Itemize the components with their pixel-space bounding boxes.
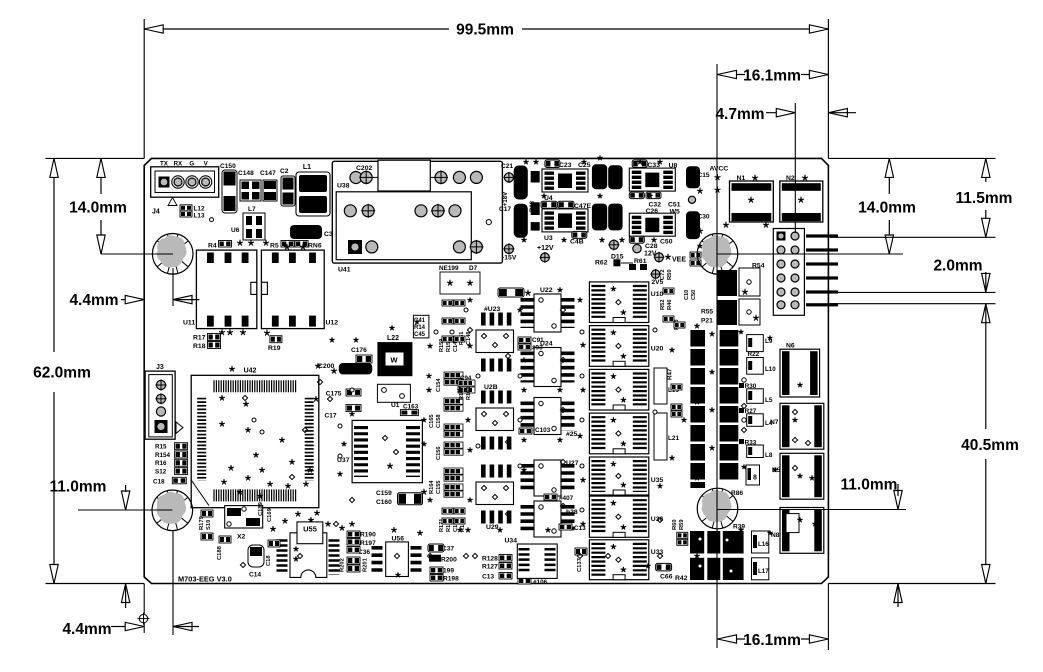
module holes middle row — [344, 205, 356, 217]
stars on dominoes — [709, 331, 714, 336]
pin row line y=237 — [830, 236, 996, 238]
svg-text:11.0mm: 11.0mm — [841, 477, 898, 494]
svg-text:C45: C45 — [414, 332, 426, 338]
svg-text:C150: C150 — [220, 163, 236, 170]
svg-text:TX: TX — [160, 160, 169, 167]
svg-text:U38: U38 — [337, 183, 350, 190]
svg-text:U35: U35 — [651, 477, 664, 484]
svg-text:R59: R59 — [679, 519, 685, 530]
dominoes below hole — [690, 531, 704, 554]
svg-text:R164: R164 — [429, 480, 435, 494]
svg-text:#25: #25 — [566, 431, 578, 438]
svg-text:L1: L1 — [303, 164, 311, 171]
svg-text:VEE: VEE — [672, 257, 686, 264]
svg-text:U22: U22 — [540, 287, 553, 294]
svg-text:R14: R14 — [414, 325, 426, 331]
svg-text:R5: R5 — [270, 243, 279, 250]
svg-text:R61: R61 — [634, 258, 647, 265]
svg-text:U41: U41 — [338, 267, 351, 274]
svg-text:R60: R60 — [672, 519, 678, 530]
svg-text:16.1mm: 16.1mm — [743, 632, 801, 649]
svg-text:4.7mm: 4.7mm — [715, 106, 764, 123]
svg-text:J3: J3 — [156, 364, 164, 371]
svg-text:C160: C160 — [376, 499, 392, 506]
resistor block R161 R167 — [458, 380, 475, 386]
svg-text:U3: U3 — [544, 235, 553, 242]
module holes top right — [435, 171, 447, 183]
svg-text:R190: R190 — [360, 532, 376, 539]
stars in N connectors — [797, 382, 802, 387]
svg-text:4.4mm: 4.4mm — [62, 621, 111, 638]
svg-text:P21: P21 — [701, 318, 713, 325]
IC U36 — [589, 496, 648, 537]
svg-text:R19: R19 — [268, 345, 281, 352]
op-amp U22 — [534, 294, 561, 332]
shield U11 — [196, 250, 256, 329]
svg-text:11.0mm: 11.0mm — [50, 479, 107, 496]
choke L4 — [747, 414, 764, 427]
board top edge extension right — [828, 157, 995, 159]
capacitor C28 — [629, 236, 644, 243]
choke L17 — [752, 558, 769, 580]
svg-text:C189: C189 — [258, 501, 264, 516]
svg-text:R4: R4 — [208, 243, 217, 250]
svg-text:C176: C176 — [351, 347, 367, 354]
label 2V5 — [651, 270, 659, 278]
choke box 8 — [746, 465, 760, 485]
svg-text:RX: RX — [174, 160, 183, 167]
svg-text:C28: C28 — [645, 243, 658, 250]
svg-text:2.0mm: 2.0mm — [933, 258, 982, 275]
module pad bottom-left — [348, 240, 362, 254]
svg-text:X2: X2 — [237, 534, 246, 541]
svg-text:C148: C148 — [466, 332, 472, 345]
IC U21 — [589, 413, 648, 454]
svg-text:C154: C154 — [436, 378, 442, 392]
svg-text:R22: R22 — [748, 351, 760, 358]
IC U1 — [377, 384, 410, 402]
svg-text:R179: R179 — [199, 515, 205, 530]
svg-text:C66: C66 — [660, 574, 673, 581]
svg-text:R15: R15 — [155, 444, 167, 451]
svg-text:U6: U6 — [231, 227, 240, 234]
svg-text:w: w — [389, 355, 398, 365]
extension line left top — [143, 19, 145, 158]
pin row line y=304 — [830, 303, 996, 305]
dimension 14.0mm right — [888, 158, 890, 194]
svg-text:R55: R55 — [701, 309, 713, 316]
dimension 99.5mm top — [144, 28, 449, 30]
svg-text:C147: C147 — [260, 170, 276, 177]
power module U41 — [332, 161, 502, 263]
svg-text:4.4mm: 4.4mm — [69, 292, 118, 309]
filter capacitor dominoes column — [690, 330, 705, 347]
capacitor C66 — [656, 563, 672, 571]
shield U12 — [261, 250, 324, 329]
svg-text:R201: R201 — [363, 557, 369, 572]
scattered diamonds — [467, 327, 472, 332]
label 12V — [633, 244, 641, 252]
svg-text:N6: N6 — [786, 343, 795, 350]
hole centerline right y=510 — [717, 509, 906, 511]
svg-text:11.5mm: 11.5mm — [956, 190, 1013, 207]
svg-text:R128: R128 — [482, 556, 498, 563]
svg-text:14.0mm: 14.0mm — [858, 200, 916, 217]
IC U4 — [542, 169, 588, 192]
dimension 11.5mm right — [985, 158, 987, 182]
svg-text:R127: R127 — [482, 564, 498, 571]
resistor R19 — [270, 336, 282, 343]
svg-text:C202: C202 — [356, 165, 372, 172]
svg-text:R16: R16 — [155, 460, 167, 467]
optocoupler U26 — [481, 391, 512, 404]
board bottom edge extension right — [828, 583, 995, 585]
choke L6 — [747, 445, 764, 458]
IC U3 — [542, 209, 588, 232]
IC U37 — [352, 420, 422, 482]
svg-text:C3: C3 — [324, 231, 333, 238]
svg-text:8: 8 — [753, 475, 757, 482]
narrow box U19 — [654, 368, 667, 404]
svg-text:U27: U27 — [566, 460, 579, 467]
module hole U38 — [350, 172, 362, 184]
svg-text:C103: C103 — [535, 427, 551, 434]
PCB board outline M703-EEG — [144, 158, 828, 583]
svg-text:C17: C17 — [499, 206, 511, 213]
label VEE — [655, 253, 664, 262]
svg-text:R47: R47 — [666, 368, 673, 380]
svg-text:C137: C137 — [577, 558, 583, 572]
capacitor C32 C51 — [629, 192, 644, 199]
svg-text:#U23: #U23 — [484, 306, 500, 313]
svg-text:L5: L5 — [765, 397, 773, 404]
IC U49 — [589, 369, 648, 410]
capacitor bank C35 C30 — [686, 166, 700, 188]
svg-text:S12: S12 — [155, 468, 167, 475]
svg-text:C23: C23 — [559, 162, 572, 169]
svg-text:b28: b28 — [566, 509, 578, 516]
dimension 16.1mm bottom — [718, 638, 746, 640]
svg-text:199: 199 — [443, 568, 454, 575]
svg-text:N5: N5 — [772, 467, 781, 474]
IC U20 — [589, 326, 648, 367]
dimension 62.0mm left — [53, 158, 55, 352]
svg-text:L7: L7 — [248, 206, 256, 213]
stars inside U42 — [229, 366, 235, 371]
svg-text:RN6: RN6 — [308, 243, 322, 250]
capacitor C106 small parts — [690, 252, 701, 258]
svg-text:U12: U12 — [326, 320, 339, 327]
svg-text:C188: C188 — [217, 545, 223, 560]
choke L9 — [747, 335, 764, 352]
header pins to board edge — [806, 234, 838, 237]
capacitor C23 — [545, 160, 560, 168]
svg-text:R200: R200 — [441, 557, 457, 564]
connector J4 — [151, 167, 219, 197]
connector N5 — [780, 453, 824, 499]
stars below U42 — [295, 511, 301, 516]
scattered small circles — [434, 330, 438, 334]
capacitor C3 — [290, 225, 322, 239]
svg-text:C165: C165 — [429, 414, 435, 428]
dimension 14.0mm left — [100, 158, 102, 194]
board bottom edge extension left — [46, 583, 145, 585]
capacitor C14 — [248, 545, 264, 567]
svg-text:L13: L13 — [194, 213, 205, 220]
mounting hole top-left — [152, 234, 193, 275]
hole centerline left y=510 — [78, 509, 172, 511]
optocoupler U23 — [481, 313, 512, 326]
capacitor C46 C47 — [541, 201, 557, 208]
mounting hole bottom-left — [152, 490, 193, 531]
capacitor column C154 C158 C165 C156 C155 — [444, 372, 463, 378]
svg-text:C200: C200 — [318, 363, 334, 370]
inductor L12 L13 — [180, 205, 192, 211]
choke L10 — [747, 358, 764, 375]
svg-text:C50: C50 — [660, 239, 673, 246]
hole centerline left y=254 — [101, 253, 173, 255]
resistor R58 R57 — [677, 532, 688, 538]
svg-text:C2: C2 — [280, 168, 289, 175]
svg-text:R18: R18 — [193, 343, 206, 350]
svg-text:R62: R62 — [595, 260, 608, 267]
svg-text:C159: C159 — [376, 490, 392, 497]
svg-text:N8: N8 — [771, 532, 780, 539]
svg-text:C4B: C4B — [570, 239, 584, 246]
module hole C202 — [360, 171, 372, 183]
extension line right top — [827, 19, 829, 158]
svg-text:U10: U10 — [651, 291, 664, 298]
svg-text:R17: R17 — [193, 335, 206, 342]
svg-text:C156: C156 — [436, 446, 442, 460]
capacitor C48 — [572, 231, 587, 238]
svg-text:L17: L17 — [758, 568, 769, 575]
svg-text:R50: R50 — [667, 269, 673, 280]
svg-text:R18: R18 — [530, 200, 536, 212]
hole center stub bottom x=173 — [172, 531, 174, 635]
scattered component markers — [414, 319, 419, 324]
svg-text:R197: R197 — [360, 540, 376, 547]
svg-text:J4: J4 — [152, 209, 160, 216]
capacitor C41 R14 C45 block — [413, 315, 429, 338]
dimension 16.1mm top — [718, 74, 746, 76]
connector U55 — [290, 533, 327, 578]
IC U10 — [589, 282, 648, 323]
svg-text:U11: U11 — [183, 320, 195, 327]
pin row line y=292 — [830, 291, 996, 293]
svg-text:C51: C51 — [668, 202, 681, 209]
small parts left of channel array — [442, 300, 453, 306]
module holes bottom row — [366, 241, 378, 253]
svg-text:C94: C94 — [460, 375, 472, 382]
svg-text:R154: R154 — [155, 452, 171, 459]
svg-text:N7: N7 — [770, 419, 779, 426]
hole center stub x=173 — [172, 268, 174, 306]
capacitor C33 — [632, 160, 647, 168]
op-amp U28 — [534, 501, 561, 537]
extension line right bottom x=828 — [827, 584, 829, 651]
QFP pin1 diagonal — [191, 480, 209, 506]
narrow box U21b — [654, 413, 667, 460]
svg-text:C169: C169 — [267, 507, 273, 522]
svg-text:C10: C10 — [684, 290, 690, 300]
svg-text:R161: R161 — [466, 387, 472, 400]
svg-text:U8: U8 — [669, 163, 678, 170]
svg-text:#407: #407 — [559, 495, 574, 502]
extension line hole x=717 — [716, 64, 718, 648]
extension line header x=794 — [794, 103, 796, 233]
IC U5 — [629, 213, 675, 236]
svg-text:U1: U1 — [391, 402, 400, 409]
svg-text:C33: C33 — [648, 162, 661, 169]
svg-text:NE199: NE199 — [439, 265, 459, 272]
svg-text:C155: C155 — [436, 480, 442, 494]
hole centerline right y=254 — [718, 253, 904, 255]
svg-text:C15: C15 — [698, 172, 710, 179]
IC U35 — [589, 457, 648, 495]
svg-text:G: G — [189, 160, 194, 167]
svg-text:U55: U55 — [303, 525, 317, 534]
svg-text:U34: U34 — [505, 538, 518, 545]
svg-text:L12: L12 — [194, 206, 205, 213]
choke L5 — [747, 389, 764, 404]
svg-text:L10: L10 — [765, 366, 776, 373]
svg-text:R52: R52 — [660, 299, 666, 310]
svg-text:C21: C21 — [501, 163, 513, 170]
stars near chokes — [739, 329, 744, 334]
svg-text:C72: C72 — [660, 269, 666, 280]
svg-text:62.0mm: 62.0mm — [33, 365, 91, 382]
svg-text:+18V: +18V — [502, 191, 509, 206]
svg-text:C14: C14 — [249, 572, 261, 579]
svg-text:14.0mm: 14.0mm — [69, 200, 127, 217]
dimension 40.5mm right — [985, 304, 987, 429]
svg-text:L16: L16 — [758, 541, 769, 548]
svg-text:C158: C158 — [436, 414, 442, 428]
connector N7 — [780, 403, 824, 449]
svg-text:C17: C17 — [325, 413, 337, 420]
svg-text:S10: S10 — [206, 520, 212, 530]
svg-text:C175: C175 — [326, 390, 342, 397]
svg-text:R46: R46 — [667, 299, 673, 310]
optocoupler U29 — [481, 465, 512, 478]
pin header P5 2x6 — [773, 229, 804, 316]
IC U8 — [629, 168, 675, 191]
svg-text:L22: L22 — [387, 335, 399, 342]
extension line left bottom x=144 — [143, 584, 145, 634]
svg-text:R202: R202 — [340, 558, 346, 572]
svg-text:40.5mm: 40.5mm — [961, 437, 1019, 454]
svg-text:R198: R198 — [443, 576, 459, 583]
svg-text:C18: C18 — [153, 479, 165, 486]
capacitor bank C24 — [592, 164, 607, 189]
svg-text:L8: L8 — [765, 452, 773, 459]
svg-text:L21: L21 — [668, 435, 679, 442]
svg-text:99.5mm: 99.5mm — [456, 22, 514, 39]
svg-text:C50: C50 — [691, 290, 697, 300]
svg-text:C148: C148 — [238, 170, 254, 177]
resistor R49 R56 — [671, 404, 682, 410]
svg-text:C91: C91 — [532, 337, 544, 344]
svg-text:C30: C30 — [698, 214, 710, 221]
svg-text:#93: #93 — [532, 345, 543, 352]
connector N8 — [780, 508, 824, 554]
svg-text:U42: U42 — [244, 367, 257, 374]
svg-text:U20: U20 — [651, 346, 664, 353]
svg-text:+12V: +12V — [537, 245, 554, 252]
op-amp U27 — [534, 460, 561, 496]
svg-text:AVCC: AVCC — [710, 166, 729, 173]
svg-text:16.1mm: 16.1mm — [743, 68, 801, 85]
op-amp U25 — [534, 398, 561, 435]
svg-text:M703-EEG V3.0: M703-EEG V3.0 — [178, 575, 232, 584]
origin target mark — [139, 614, 147, 622]
mounting hole bottom-right — [697, 488, 738, 529]
svg-text:D7: D7 — [469, 265, 478, 272]
svg-text:-15V: -15V — [502, 255, 517, 262]
IC U33 — [589, 540, 648, 580]
op-amp U24 — [534, 348, 561, 387]
resistor pads near choke labels — [739, 383, 744, 388]
crystal X2 — [225, 506, 263, 528]
connector N6 — [780, 349, 820, 397]
svg-text:U2B: U2B — [484, 384, 498, 391]
resistor R55 — [717, 300, 737, 325]
board top edge extension left — [46, 157, 145, 159]
svg-text:R42: R42 — [675, 575, 688, 582]
svg-text:U29: U29 — [486, 524, 499, 531]
svg-text:#106: #106 — [533, 579, 548, 586]
svg-text:C18: C18 — [266, 555, 272, 566]
capacitor C4B column — [531, 171, 540, 183]
svg-text:C13: C13 — [482, 574, 494, 581]
mounting hole top-right — [697, 234, 738, 275]
choke L16 — [752, 531, 769, 553]
